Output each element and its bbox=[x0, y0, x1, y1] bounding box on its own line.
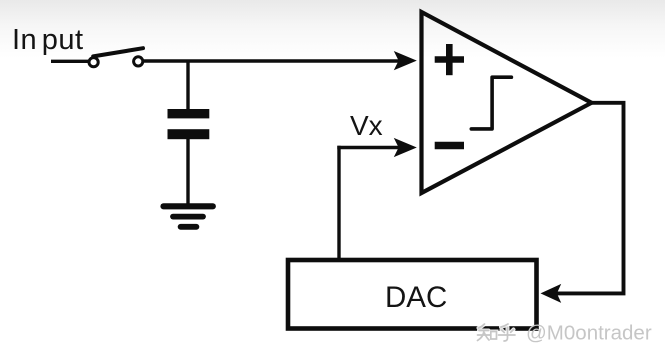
minus input marker bbox=[435, 142, 464, 149]
wire capacitor bottom to ground bbox=[186, 139, 189, 204]
svg-text:Vx: Vx bbox=[350, 110, 383, 141]
wire DAC output to comparator - input (with arrowhead) bbox=[337, 138, 417, 258]
wire comparator output to DAC input (feedback, with arrowhead) bbox=[541, 103, 624, 303]
watermark zhihu @M0ontrader bbox=[478, 322, 652, 345]
plus input marker bbox=[435, 44, 464, 75]
node label "Vx" bbox=[350, 110, 383, 141]
wire input left segment bbox=[51, 60, 89, 63]
switch S1 (sampling switch, open) bbox=[89, 48, 143, 67]
capacitor C1 (sampling capacitor) bbox=[168, 109, 210, 139]
hysteresis symbol inside comparator bbox=[471, 77, 511, 129]
svg-text:DAC: DAC bbox=[385, 281, 447, 314]
wire switch to comparator + input (with arrowhead) bbox=[143, 51, 417, 70]
svg-text:Input: Input bbox=[12, 24, 84, 56]
wire node to capacitor top bbox=[186, 60, 189, 111]
ground bbox=[164, 206, 213, 227]
node label "Input" bbox=[12, 24, 84, 56]
DAC U2 (box) bbox=[288, 260, 537, 329]
comparator U1 (triangle body) bbox=[422, 12, 592, 193]
svg-text:@M0ontrader: @M0ontrader bbox=[526, 322, 652, 345]
DAC label bbox=[385, 281, 447, 314]
